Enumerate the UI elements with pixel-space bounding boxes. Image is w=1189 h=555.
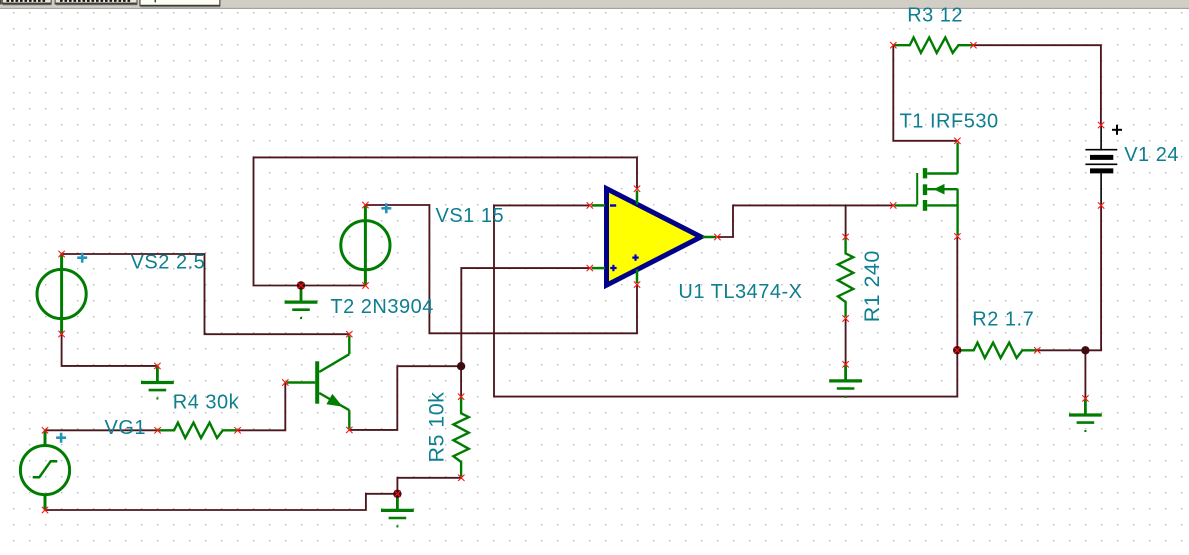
x opamp V- pin: [634, 186, 640, 192]
x VS2 top: [58, 251, 64, 257]
x opamp output: [714, 234, 720, 240]
x VG1 top: [42, 427, 48, 433]
voltage source VS2: [37, 254, 86, 334]
resistor R5 (vertical): [453, 397, 468, 477]
x ground G3: [842, 361, 848, 367]
wire R1 bottom to ground G3: [845, 319, 847, 365]
svg-text:T2 2N3904: T2 2N3904: [330, 296, 433, 318]
wire R3 left to T1 drain: [893, 45, 957, 141]
x T1 drain: [954, 138, 960, 144]
svg-text:R1 240: R1 240: [860, 250, 884, 322]
toolbar tab strip (cut off at top): [0, 0, 1189, 9]
wire R5 bottom to ground G5 junction: [397, 478, 461, 494]
junction VS1- ground node: [297, 281, 305, 289]
wire VS2- to ground G1: [62, 334, 158, 366]
svg-text:R4 30k: R4 30k: [173, 391, 240, 413]
wire output node down to R1 top: [845, 205, 847, 237]
x VS1 bottom: [362, 282, 368, 288]
ground G4 (V1/R2): [1069, 398, 1102, 432]
resistor R1 (vertical): [838, 237, 853, 317]
wire VG1+ to R4: [45, 429, 158, 431]
plus mark V1: [1112, 125, 1122, 135]
wire feedback node to opamp inverting input: [494, 205, 957, 396]
x R1 bottom: [842, 315, 848, 321]
x R2 left junction: [954, 347, 960, 353]
ground G1 (VS2): [141, 366, 174, 400]
x R4 right: [234, 427, 240, 433]
wire VS1+ to opamp V+ pin: [365, 205, 637, 333]
resistor R3: [893, 38, 973, 53]
plus mark VS1: [381, 203, 391, 213]
x V1 top: [1098, 122, 1104, 128]
x R3 left: [890, 42, 896, 48]
svg-text:VS1 15: VS1 15: [436, 205, 505, 227]
x T2 emitter: [346, 427, 352, 433]
junction V1- / R2 right node: [1081, 346, 1089, 354]
junction T2 emitter / R5 / opamp+ node: [457, 362, 465, 370]
voltage source VS1: [341, 205, 390, 286]
wire VS2+ to T2 collector: [62, 254, 350, 334]
battery V1: [1085, 126, 1117, 204]
x opamp V+ pin: [634, 281, 640, 287]
x T1 source: [954, 233, 960, 239]
x T2 collector: [346, 331, 352, 337]
svg-text:VG1: VG1: [105, 417, 147, 439]
wire VG1- to ground G5 junction: [45, 494, 397, 510]
resistor R4: [158, 423, 238, 438]
plus mark VS2: [77, 253, 87, 263]
transistor T1 (NMOS IRF530): [895, 143, 958, 236]
wire T2 emitter to R5 node: [349, 366, 461, 430]
wire R3 right to V1+: [973, 45, 1101, 125]
wire R2 right to V1 node: [1037, 349, 1085, 351]
x R1 top: [842, 234, 848, 240]
x R3 right: [970, 42, 976, 48]
x R5 bottom: [458, 475, 464, 481]
junction VG1- / R5 / ground node: [393, 490, 401, 498]
svg-text:U1 TL3474-X: U1 TL3474-X: [678, 281, 802, 303]
x R5 top: [458, 394, 464, 400]
x ground G2 junction: [298, 282, 304, 288]
x T2 base: [282, 379, 288, 385]
wire R4 to T2 base: [238, 383, 286, 431]
svg-text:T1 IRF530: T1 IRF530: [900, 111, 999, 133]
ground G2 (VS1): [285, 286, 318, 320]
wire V1 node to ground G4: [1084, 350, 1086, 398]
wire R5 node to opamp non-inverting input: [461, 268, 590, 366]
x R4 left: [154, 427, 160, 433]
svg-text:R2 1.7: R2 1.7: [972, 309, 1034, 331]
x T1 gate: [890, 202, 896, 208]
x ground G4: [1082, 395, 1088, 401]
x opamp non-inverting input: [587, 265, 593, 271]
op-amp U1: [592, 189, 717, 286]
svg-text:VS2 2.5: VS2 2.5: [131, 251, 206, 273]
x V1 bottom: [1098, 202, 1104, 208]
junction T1 source / R2 left node: [953, 346, 961, 354]
transistor T2 (NPN 2N3904): [287, 336, 350, 429]
svg-text:V1 24: V1 24: [1124, 144, 1179, 166]
ground G3 (R1): [829, 364, 862, 398]
x VS1 top: [362, 202, 368, 208]
svg-text:R5 10k: R5 10k: [425, 392, 449, 463]
x R2 right: [1034, 347, 1040, 353]
x opamp inverting input: [587, 202, 593, 208]
wire opamp V- pin loop to VS1- and ground G2: [254, 157, 638, 285]
wire R5 junction to R5 top: [460, 366, 462, 396]
resistor R2: [957, 343, 1037, 358]
wire opamp output to T1 gate: [717, 205, 893, 237]
x VG1 bottom: [42, 507, 48, 513]
voltage generator VG1: [20, 430, 69, 510]
svg-text:R3 12: R3 12: [907, 4, 963, 26]
x ground G1: [154, 363, 160, 369]
wire V1- down to R2 node: [1085, 205, 1101, 350]
ground G5 (VG1/R5): [381, 494, 414, 528]
plus mark VG1: [56, 433, 66, 443]
x ground G5 junction: [394, 491, 400, 497]
x VS2 bottom: [58, 331, 64, 337]
